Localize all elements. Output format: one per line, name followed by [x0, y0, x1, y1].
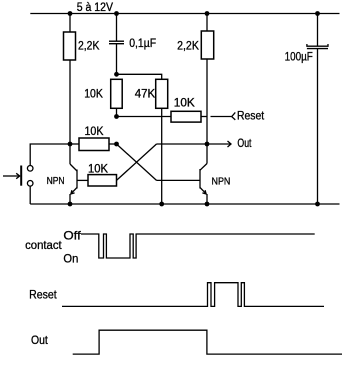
svg-text:Reset: Reset: [237, 110, 265, 122]
wire reset input stub: [211, 116, 232, 118]
capacitor 0,1µF plates: [109, 41, 124, 44]
junction Q1 collector node: [68, 142, 73, 147]
waveform contact trace: [81, 234, 315, 258]
wire stub Q1 collector node to R10K#1: [70, 143, 79, 145]
svg-text:5 à 12V: 5 à 12V: [77, 2, 114, 14]
junction cap/47K/10K node: [114, 72, 119, 77]
wire Q1 base stub: [77, 179, 88, 181]
svg-text:contact: contact: [25, 238, 62, 252]
wire stub rail to capacitor 100µF: [317, 14, 319, 47]
wire node to 47K top: [117, 74, 162, 79]
junction Q2 collector node: [205, 142, 210, 147]
svg-text:47K: 47K: [135, 89, 156, 101]
capacitor 100µF polarized plates: [307, 44, 328, 49]
wire capacitor 100µF to ground rail: [317, 49, 319, 204]
svg-text:NPN: NPN: [47, 175, 65, 187]
svg-text:10K: 10K: [84, 89, 103, 101]
wire out stub: [207, 143, 230, 145]
arrowhead out: [228, 141, 232, 147]
resistor 10K reset body: [171, 111, 201, 122]
svg-text:2,2K: 2,2K: [78, 41, 100, 53]
svg-text:NPN: NPN: [212, 175, 231, 187]
svg-text:Reset: Reset: [29, 287, 57, 301]
waveform out trace: [73, 330, 342, 354]
wire stub rail to R 2,2K right: [206, 14, 208, 32]
transistor Q1 NPN left: [70, 144, 77, 204]
wire reset row left segment: [117, 116, 172, 118]
push button contact bottom: [27, 181, 33, 187]
svg-text:Off: Off: [63, 228, 81, 242]
wire button top contact to Q1 collector node: [30, 144, 70, 166]
junction reset row at x=116.5: [114, 114, 119, 119]
wire out row to Q2 collector: [157, 143, 208, 145]
svg-text:10K: 10K: [85, 126, 104, 138]
wire cross-coupling diagonal B: [117, 144, 157, 180]
svg-text:On: On: [63, 252, 78, 266]
wire bottom ground rail: [30, 203, 339, 205]
wire stub rail to R 2,2K left: [69, 14, 71, 33]
svg-text:100µF: 100µF: [285, 52, 313, 64]
junction ground rail at x=317.5: [315, 202, 320, 207]
wire top supply rail: [30, 13, 339, 15]
resistor 2,2K left body: [64, 32, 76, 60]
junction cross node x=116.5 y=144: [114, 142, 119, 147]
push button actuator arrow: [3, 173, 20, 178]
svg-text:Out: Out: [31, 333, 48, 347]
wire Q2 base row: [157, 179, 201, 181]
junction top rail at x=70: [68, 11, 73, 16]
wire 10K vertical bottom to reset row: [116, 109, 118, 117]
svg-text:2,2K: 2,2K: [177, 41, 199, 53]
svg-text:0,1µF: 0,1µF: [129, 38, 156, 50]
junction ground rail at x=207: [205, 202, 210, 207]
wire 47K bottom down to ground rail: [161, 109, 163, 205]
wire stub rail to capacitor 0,1µF: [116, 14, 118, 42]
wire R 2,2K right bottom to Q2 collector node: [206, 59, 208, 144]
svg-text:Out: Out: [237, 138, 252, 150]
wire capacitor bottom to node: [116, 44, 118, 75]
transistor Q2 NPN right: [200, 144, 207, 204]
resistor 2,2K right body: [201, 31, 213, 59]
svg-text:10K: 10K: [174, 98, 195, 110]
resistor 47K body: [156, 79, 168, 108]
resistor 10K coupling upper body: [79, 138, 109, 151]
resistor 10K coupling lower body: [88, 175, 117, 186]
junction top rail at x=317.5: [315, 11, 320, 16]
junction top rail at x=116.5: [114, 11, 119, 16]
wire cross-coupling diagonal A: [117, 144, 157, 180]
junction top rail at x=207: [205, 11, 210, 16]
wire reset resistor to Q2 collector line: [201, 116, 207, 118]
wire R10K#1 to cross node: [109, 143, 117, 145]
resistor 10K vertical body: [111, 79, 123, 108]
junction ground rail at x=70: [68, 202, 73, 207]
push button contact top: [27, 166, 33, 172]
arrowhead reset input: [232, 112, 236, 120]
junction ground rail at x=161.7: [159, 202, 164, 207]
push button bar: [20, 166, 22, 186]
waveform reset trace: [62, 283, 324, 307]
svg-text:10K: 10K: [88, 163, 108, 175]
wire R2,2K left bottom to Q1 collector node: [69, 60, 71, 144]
wire button bottom contact to ground rail: [29, 186, 31, 204]
